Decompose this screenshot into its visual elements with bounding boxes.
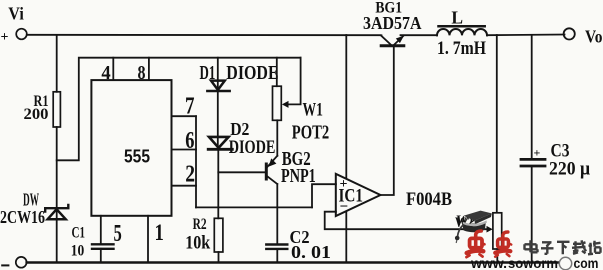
wire D1 to D2 (217, 91, 219, 149)
pin 8 tick (148, 58, 150, 80)
svg-text:POT2: POT2 (292, 122, 329, 144)
svg-text:−: − (340, 199, 349, 215)
wire C3 bottom lead (531, 167, 533, 263)
label - (2, 264, 8, 266)
glyph xia (557, 242, 570, 255)
svg-text:0. 01: 0. 01 (291, 242, 331, 262)
svg-text:DIODE: DIODE (226, 62, 278, 84)
pin 4 tick (112, 58, 114, 80)
glyph zai (572, 240, 586, 254)
svg-text:200: 200 (24, 106, 49, 123)
diode D1 (217, 58, 219, 91)
wire threshold net (196, 206, 312, 208)
svg-text:7: 7 (185, 93, 195, 119)
svg-text:L: L (451, 7, 463, 27)
svg-text:Vi: Vi (8, 3, 24, 23)
wire rail L to Vo (487, 34, 565, 37)
svg-text:8: 8 (138, 62, 146, 84)
svg-text:5: 5 (114, 221, 122, 247)
resistor R2 (214, 218, 223, 252)
svg-text:220 μ: 220 μ (549, 159, 590, 180)
svg-text:10k: 10k (185, 232, 210, 253)
wire rail BG1 to L (401, 34, 438, 36)
capacitor C2 (266, 243, 287, 245)
svg-text:4: 4 (101, 62, 110, 84)
wire W1 top lead (276, 58, 278, 86)
wire W1 bottom to BG2 emitter (276, 120, 278, 156)
op-amp IC1 (336, 174, 381, 216)
svg-text:DIODE: DIODE (229, 137, 276, 158)
wire W2 bottom lead (496, 249, 498, 263)
pin 7 line (172, 115, 197, 117)
terminal Vo (564, 28, 575, 39)
transistor BG2 (265, 164, 268, 179)
terminal - output bottom left (16, 257, 27, 268)
svg-text:+: + (1, 30, 9, 45)
svg-text:C1: C1 (72, 224, 86, 241)
capacitor C1 (92, 243, 114, 245)
svg-text:www.: www. (470, 255, 507, 270)
wire IC1 plus input (312, 184, 336, 207)
wire R2 bottom lead (218, 252, 220, 263)
svg-text:6: 6 (185, 128, 194, 154)
wire loop to 555 supply (57, 58, 301, 161)
potentiometer W2 body (493, 213, 502, 249)
capacitor C3 (521, 158, 545, 161)
watermark graduation cap (455, 211, 492, 243)
wire DW bottom lead (56, 219, 58, 262)
wire IC1 output to BG1 base (380, 47, 394, 195)
wire pin 5 lead (100, 216, 102, 244)
svg-text:D1: D1 (200, 62, 216, 84)
wiper arrow W2 (487, 226, 493, 233)
wire top rail left (27, 34, 382, 36)
potentiometer W1 body (273, 86, 282, 120)
wire IC1 minus input to W2 wiper (325, 212, 489, 230)
transistor BG1 (381, 44, 404, 47)
svg-text:F004B: F004B (406, 190, 452, 210)
svg-text:3AD57A: 3AD57A (363, 13, 422, 33)
glyph zhan (588, 241, 601, 255)
wire D2 cathode down to R2 (217, 149, 219, 218)
wire BG2 collector down to C2 (276, 184, 278, 244)
svg-text:com: com (574, 255, 599, 270)
wire pin column right edge (195, 116, 197, 207)
svg-text:Vo: Vo (585, 27, 603, 47)
wire C3 top branch (531, 35, 533, 158)
svg-text:soworm: soworm (508, 255, 558, 270)
wire pin 1 lead (147, 216, 149, 263)
wire op-amp V+ supply (345, 35, 347, 179)
wire W1 wiper (285, 58, 301, 105)
resistor R1 (53, 92, 60, 127)
inductor L (437, 29, 487, 35)
pin 6 line (172, 149, 197, 151)
wire bottom rail (27, 261, 565, 263)
glyph zi (541, 242, 554, 254)
wire op-amp V- supply (345, 209, 347, 263)
svg-text:W1: W1 (303, 100, 323, 121)
wire C1 bottom lead (100, 249, 102, 263)
wire to BG2 base (218, 171, 264, 173)
svg-text:2CW16: 2CW16 (0, 207, 45, 227)
watermark url www.soworm.com (470, 255, 598, 270)
svg-text:1: 1 (155, 220, 164, 245)
svg-text:2: 2 (185, 161, 195, 187)
pin 2 line (172, 185, 197, 187)
wire R1 bottom lead (56, 127, 58, 219)
svg-text:+: + (534, 146, 541, 160)
svg-text:PNP1: PNP1 (281, 166, 316, 187)
svg-text:R2: R2 (193, 216, 207, 233)
svg-text:555: 555 (124, 146, 150, 167)
watermark bug 2 (495, 232, 511, 257)
IC 555 box (91, 80, 171, 216)
wire C2 bottom lead (276, 249, 278, 263)
diode D2 (209, 137, 229, 148)
watermark bug 1 (467, 231, 485, 257)
wire W2 top branch (496, 35, 498, 213)
svg-text:10: 10 (71, 242, 85, 259)
terminal + input Vi (16, 29, 27, 40)
glyph dian (525, 240, 538, 252)
watermark text dianzixiazaizhan (525, 240, 601, 254)
zener diode DW (45, 205, 68, 219)
wire R1 top lead (56, 35, 58, 92)
svg-text:1. 7mH: 1. 7mH (437, 38, 486, 59)
